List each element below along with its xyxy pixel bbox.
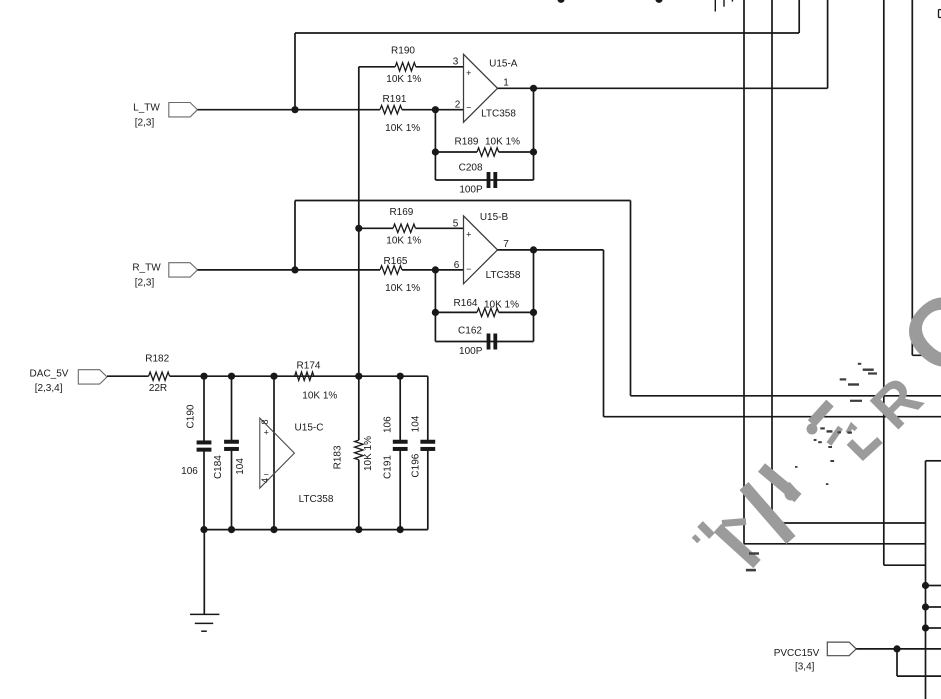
svg-text:R182: R182 xyxy=(145,354,169,365)
svg-text:2: 2 xyxy=(455,100,461,111)
svg-text:+: + xyxy=(264,428,269,438)
svg-text:10K 1%: 10K 1% xyxy=(386,236,421,247)
svg-text:+: + xyxy=(466,230,471,240)
svg-text:10K 1%: 10K 1% xyxy=(302,390,337,401)
svg-text:10K 1%: 10K 1% xyxy=(363,436,374,471)
svg-text:10K 1%: 10K 1% xyxy=(386,74,421,85)
svg-text:10K 1%: 10K 1% xyxy=(485,136,520,147)
svg-text:−: − xyxy=(466,264,471,274)
svg-text:7: 7 xyxy=(503,239,509,250)
svg-text:+: + xyxy=(466,68,471,78)
svg-text:22R: 22R xyxy=(149,383,167,394)
svg-text:C191: C191 xyxy=(383,455,394,479)
svg-text:3: 3 xyxy=(453,57,459,68)
svg-text:R190: R190 xyxy=(391,46,415,57)
svg-text:R174: R174 xyxy=(297,361,321,372)
svg-text:C196: C196 xyxy=(410,453,421,477)
svg-text:100P: 100P xyxy=(459,185,483,196)
svg-text:R164: R164 xyxy=(454,298,478,309)
svg-text:U15-A: U15-A xyxy=(489,58,518,69)
svg-text:R_TW: R_TW xyxy=(132,263,161,274)
svg-text:5: 5 xyxy=(453,218,459,229)
svg-text:10K 1%: 10K 1% xyxy=(385,123,420,134)
svg-text:U15-B: U15-B xyxy=(480,212,509,223)
svg-text:DAC_5V: DAC_5V xyxy=(30,368,69,379)
svg-text:[2,3]: [2,3] xyxy=(135,117,155,128)
svg-text:C190: C190 xyxy=(186,404,197,428)
svg-text:LTC358: LTC358 xyxy=(481,109,516,120)
svg-text:R191: R191 xyxy=(383,94,407,105)
svg-text:106: 106 xyxy=(383,416,394,433)
svg-text:100P: 100P xyxy=(459,346,483,357)
svg-text:[2,3]: [2,3] xyxy=(135,277,155,288)
svg-text:4: 4 xyxy=(260,478,270,483)
svg-text:1: 1 xyxy=(503,78,509,89)
svg-text:104: 104 xyxy=(235,458,246,475)
svg-text:LTC358: LTC358 xyxy=(299,494,334,505)
svg-text:R189: R189 xyxy=(455,136,479,147)
svg-text:10K 1%: 10K 1% xyxy=(385,283,420,294)
svg-text:[3,4]: [3,4] xyxy=(795,662,815,673)
svg-text:C162: C162 xyxy=(458,325,482,336)
svg-text:PVCC15V: PVCC15V xyxy=(774,648,820,659)
svg-text:−: − xyxy=(466,103,471,113)
svg-text:[2,3,4]: [2,3,4] xyxy=(35,383,63,394)
svg-text:8: 8 xyxy=(260,419,270,424)
svg-text:L_TW: L_TW xyxy=(133,102,160,113)
svg-text:C208: C208 xyxy=(459,163,483,174)
svg-text:104: 104 xyxy=(410,415,421,432)
svg-text:C184: C184 xyxy=(213,455,224,479)
svg-text:U15-C: U15-C xyxy=(295,423,324,434)
svg-text:R169: R169 xyxy=(389,207,413,218)
svg-text:10K 1%: 10K 1% xyxy=(484,300,519,311)
svg-text:106: 106 xyxy=(181,466,198,477)
svg-text:LTC358: LTC358 xyxy=(486,270,521,281)
svg-text:R165: R165 xyxy=(384,256,408,267)
svg-text:R183: R183 xyxy=(333,445,344,469)
svg-text:6: 6 xyxy=(454,260,460,271)
